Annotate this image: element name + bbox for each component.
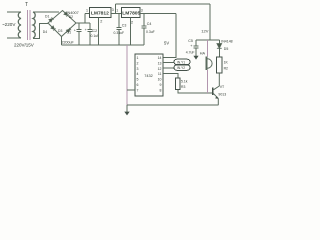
svg-text:14: 14 xyxy=(158,56,162,60)
diode D5 IN4148 xyxy=(218,40,220,57)
svg-text:C2: C2 xyxy=(93,29,98,33)
svg-text:+: + xyxy=(190,44,193,48)
svg-text:11: 11 xyxy=(158,72,162,76)
capacitor C5 xyxy=(194,40,199,56)
capacitor C4 xyxy=(142,14,147,46)
svg-text:4.7uF: 4.7uF xyxy=(186,51,195,55)
svg-text:10: 10 xyxy=(158,78,162,82)
svg-text:0.3uF: 0.3uF xyxy=(146,30,155,34)
input box 2 xyxy=(174,65,190,70)
wire 12V rail drop xyxy=(209,4,211,40)
svg-text:C4: C4 xyxy=(147,22,152,26)
wire 12V riser to top rail xyxy=(115,4,117,14)
svg-text:1: 1 xyxy=(86,9,88,13)
svg-text:7: 7 xyxy=(137,89,139,93)
svg-text:6: 6 xyxy=(137,83,139,87)
wire IC pin12 to input box 2 xyxy=(163,67,174,69)
svg-text:4: 4 xyxy=(137,72,139,76)
svg-text:13: 13 xyxy=(158,61,162,65)
resistor R3 xyxy=(176,78,180,90)
bridge rectifier diamond xyxy=(48,11,76,37)
capacitor C2 xyxy=(88,23,93,45)
svg-text:IN4148: IN4148 xyxy=(221,40,232,44)
transformer T primary winding xyxy=(18,12,21,38)
svg-text:2: 2 xyxy=(137,61,139,65)
svg-text:12: 12 xyxy=(158,67,162,71)
input box 1 xyxy=(174,59,190,64)
svg-text:3: 3 xyxy=(112,8,114,12)
svg-text:R2: R2 xyxy=(224,67,228,71)
transformer T secondary winding xyxy=(33,12,35,38)
svg-text:1: 1 xyxy=(137,56,139,60)
svg-text:+: + xyxy=(85,28,87,32)
svg-text:9013: 9013 xyxy=(218,93,226,97)
resistor R2 xyxy=(217,57,222,73)
wire bridge - output to ground bus xyxy=(61,37,63,46)
svg-text:R3: R3 xyxy=(181,85,185,89)
bottom rail xyxy=(127,104,218,106)
wire LM7812 pin2 to ground bus xyxy=(98,18,100,45)
IC U3 7432 xyxy=(135,54,163,96)
ground bus xyxy=(62,44,145,46)
buzzer HA xyxy=(205,57,207,71)
svg-text:8: 8 xyxy=(160,89,162,93)
wire IC pin7 to ground rail xyxy=(127,89,135,91)
svg-text:0.33uF: 0.33uF xyxy=(114,31,125,35)
svg-text:D4: D4 xyxy=(43,30,47,34)
svg-text:7432: 7432 xyxy=(144,74,152,78)
svg-text:5: 5 xyxy=(137,78,139,82)
svg-text:VT: VT xyxy=(220,85,225,89)
wire riser to LM7812 input xyxy=(85,14,90,24)
wire buzzer feed xyxy=(207,40,209,57)
diode D1 symbol xyxy=(49,17,54,22)
wire IC pin13 to input box 1 xyxy=(163,62,174,64)
wire LM7812 out to LM7805 in xyxy=(111,13,121,15)
svg-text:0.1uF: 0.1uF xyxy=(91,34,100,38)
wire 12V top rail xyxy=(116,3,211,5)
svg-text:D3: D3 xyxy=(58,29,62,33)
svg-text:LM7812: LM7812 xyxy=(91,11,109,17)
svg-text:3: 3 xyxy=(141,9,143,13)
svg-text:1: 1 xyxy=(116,9,118,13)
svg-text:D5: D5 xyxy=(224,47,229,51)
svg-text:C3: C3 xyxy=(122,24,127,28)
svg-text:9: 9 xyxy=(160,83,162,87)
wire LM7805 pin2 to ground bus xyxy=(130,18,132,45)
regulator U1 LM7812 xyxy=(90,8,112,18)
svg-text:3: 3 xyxy=(137,67,139,71)
svg-text:~220V: ~220V xyxy=(2,22,16,27)
svg-text:2200uF: 2200uF xyxy=(62,41,75,45)
capacitor C3 xyxy=(117,14,122,46)
svg-text:+: + xyxy=(74,29,76,33)
svg-text:12V: 12V xyxy=(201,29,208,34)
svg-text:1K: 1K xyxy=(224,61,229,65)
diode D4 symbol xyxy=(51,26,56,31)
diode D2 symbol xyxy=(64,12,69,17)
svg-text:IN.Y1: IN.Y1 xyxy=(177,60,185,64)
svg-text:HA: HA xyxy=(200,52,206,56)
wire R2 to collector xyxy=(214,73,220,90)
svg-text:5.1k: 5.1k xyxy=(181,80,188,84)
transistor VT 9013 xyxy=(212,88,214,96)
wire secondary bottom to bridge left vertex xyxy=(33,24,48,39)
wire 5V riser down to IC pin 14 xyxy=(163,14,176,58)
wire primary bottom terminal xyxy=(7,37,21,39)
wire LM7805 out 5V xyxy=(140,13,176,15)
svg-text:D1: D1 xyxy=(45,15,49,19)
ground arrow xyxy=(126,105,128,112)
wire buzzer to base junction xyxy=(207,70,209,93)
svg-text:T: T xyxy=(25,2,28,8)
svg-text:220V/15V: 220V/15V xyxy=(14,43,34,48)
wire primary top terminal xyxy=(7,11,21,13)
diode D3 symbol xyxy=(66,28,71,33)
wire IC pin11 to R3 xyxy=(163,74,178,78)
svg-text:D2: D2 xyxy=(69,15,73,19)
svg-text:5V: 5V xyxy=(164,41,169,46)
wire ground drop xyxy=(126,45,128,105)
svg-text:C5: C5 xyxy=(188,39,193,43)
capacitor C1 xyxy=(77,23,82,45)
ground arrow C5 xyxy=(193,56,198,60)
svg-text:LM7805: LM7805 xyxy=(122,11,140,17)
wire bridge + output xyxy=(76,22,90,24)
svg-text:2: 2 xyxy=(131,20,134,25)
svg-text:C1: C1 xyxy=(67,31,72,35)
svg-text:IN.Y2: IN.Y2 xyxy=(177,66,185,70)
transformer T core xyxy=(28,10,31,40)
wire R3 to base xyxy=(178,90,213,94)
wire secondary top to bridge xyxy=(33,11,59,13)
regulator U2 LM7805 xyxy=(121,8,140,18)
wire 12V node horizontal xyxy=(196,39,219,41)
svg-text:2: 2 xyxy=(100,20,102,24)
